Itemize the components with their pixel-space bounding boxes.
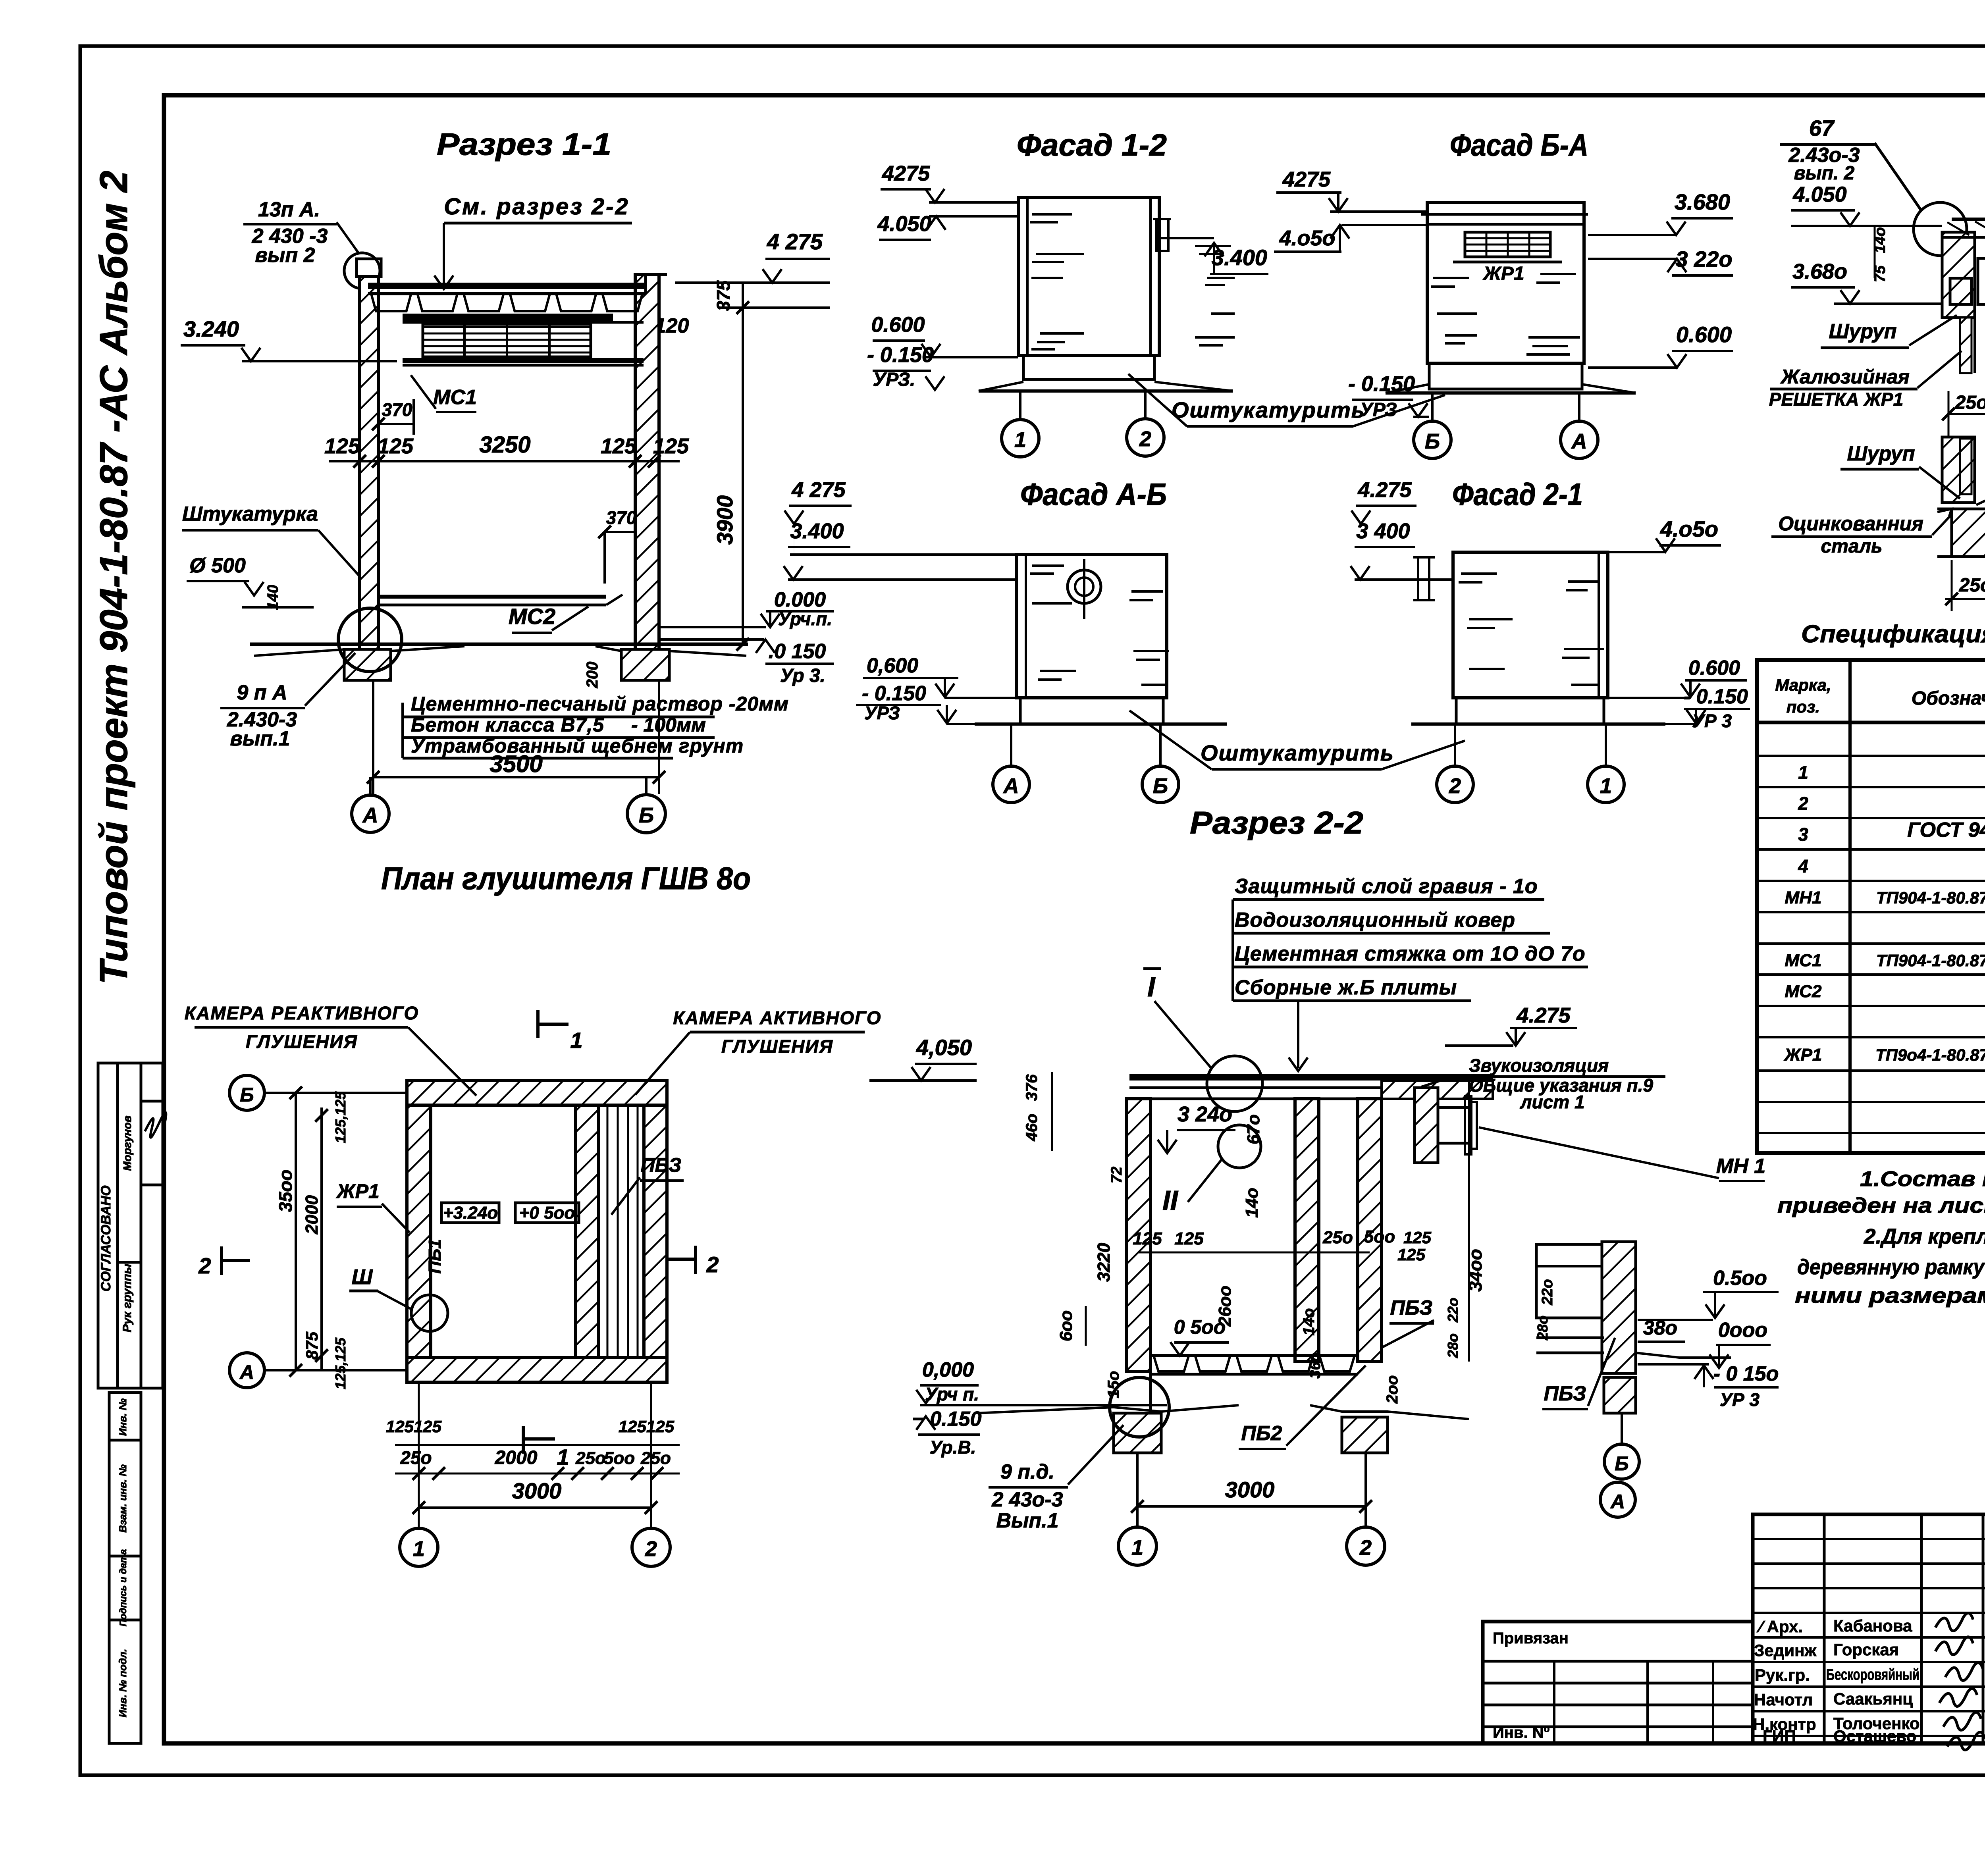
svg-text:4 275: 4 275 — [767, 229, 823, 254]
right dim 3400 — [1468, 1081, 1470, 1362]
svg-text:Б: Б — [1153, 774, 1168, 798]
spec table frame — [1757, 660, 1985, 1153]
svg-text:Водоизоляционный ковер: Водоизоляционный ковер — [1235, 909, 1515, 932]
svg-text:Б: Б — [639, 803, 654, 827]
svg-text:376: 376 — [1023, 1074, 1041, 1101]
signature table — [1753, 1514, 1985, 1743]
svg-text:Цементная стяжка от 1О дО 7о: Цементная стяжка от 1О дО 7о — [1235, 942, 1586, 965]
section 2-2 axis 1 — [1118, 1527, 1156, 1565]
facade B-A body — [1427, 202, 1584, 363]
embedded part MN1 flange — [1438, 1106, 1469, 1109]
svg-text:4 275: 4 275 — [791, 478, 846, 502]
svg-text:ТП9о4-1-80.87-АСН-ЖР1: ТП9о4-1-80.87-АСН-ЖР1 — [1875, 1046, 1985, 1064]
svg-text:2: 2 — [1449, 774, 1461, 798]
svg-text:3.240: 3.240 — [183, 316, 239, 341]
svg-text:Рук.гр.: Рук.гр. — [1755, 1666, 1810, 1684]
svg-text:0.5оо: 0.5оо — [1713, 1267, 1767, 1290]
svg-text:1: 1 — [1600, 774, 1612, 798]
plan detail circle III — [411, 1295, 448, 1331]
svg-text:Марка,: Марка, — [1775, 676, 1831, 694]
svg-text:9 п.д.: 9 п.д. — [1000, 1460, 1054, 1483]
svg-text:25о: 25о — [1959, 575, 1985, 596]
svg-text:Звукоизоляция: Звукоизоляция — [1469, 1055, 1609, 1076]
plan top wall — [407, 1081, 667, 1105]
svg-text:125125: 125125 — [619, 1417, 675, 1436]
svg-text:2: 2 — [645, 1537, 657, 1561]
svg-text:2.Для крепления жалюзийной: 2.Для крепления жалюзийной решетки выпол… — [1864, 1225, 1985, 1248]
svg-text:Инв. Nº: Инв. Nº — [1493, 1724, 1549, 1741]
facade 2-1 pedestal — [1456, 698, 1604, 724]
svg-text:2000: 2000 — [495, 1447, 538, 1468]
node axis A — [1600, 1482, 1635, 1517]
svg-text:25о: 25о — [575, 1448, 606, 1468]
svg-text:72: 72 — [1108, 1167, 1125, 1183]
svg-text:Оцинкованния: Оцинкованния — [1778, 512, 1923, 535]
svg-text:деревянную рамку из Бруска: деревянную рамку из Бруска сечением 1оох… — [1797, 1255, 1985, 1279]
svg-text:Оштукатурить: Оштукатурить — [1201, 740, 1394, 765]
svg-text:Осташево: Осташево — [1833, 1727, 1916, 1745]
svg-text:Вып.1: Вып.1 — [996, 1509, 1058, 1532]
plan axis B — [229, 1075, 264, 1110]
facade 1-2 pedestal — [1023, 356, 1154, 379]
facade B-A louvre ZhR1 — [1465, 232, 1550, 257]
svg-text:4275: 4275 — [882, 162, 930, 185]
svg-text:1: 1 — [570, 1028, 582, 1053]
svg-text:4,050: 4,050 — [916, 1035, 972, 1060]
svg-text:4.275: 4.275 — [1357, 478, 1412, 502]
svg-text:Бетон класса В7,5: Бетон класса В7,5 — [411, 714, 604, 736]
right wall hatched — [635, 275, 659, 656]
section 2-2 axis 2 — [1347, 1527, 1385, 1565]
svg-text:28о: 28о — [1445, 1333, 1461, 1358]
svg-text:3000: 3000 — [512, 1478, 562, 1503]
plan channel plates — [607, 1105, 609, 1358]
svg-text:А: А — [1003, 774, 1019, 798]
svg-text:.0 150: .0 150 — [769, 640, 826, 663]
svg-text:3.680: 3.680 — [1675, 189, 1730, 214]
svg-text:0,000: 0,000 — [922, 1358, 974, 1381]
plan right wall — [644, 1105, 667, 1358]
svg-text:9 п А: 9 п А — [237, 681, 287, 704]
svg-text:4.050: 4.050 — [877, 212, 931, 236]
svg-text:ГИП: ГИП — [1763, 1727, 1796, 1745]
svg-text:Защитный слой гравия - 1о: Защитный слой гравия - 1о — [1235, 875, 1538, 898]
svg-text:2000: 2000 — [302, 1195, 322, 1235]
svg-text:УР 3: УР 3 — [1720, 1389, 1760, 1410]
svg-text:14о: 14о — [1242, 1188, 1262, 1218]
svg-text:Фасад Б-А: Фасад Б-А — [1450, 127, 1588, 162]
svg-text:38о: 38о — [1643, 1317, 1677, 1339]
svg-text:26оо: 26оо — [1215, 1286, 1235, 1327]
facade A-B texture strokes — [1032, 564, 1064, 567]
foundation callout circle 2-2 — [1110, 1377, 1169, 1437]
svg-text:3000: 3000 — [1225, 1477, 1275, 1502]
roof parapet right — [644, 275, 647, 294]
svg-text:6оо: 6оо — [1056, 1310, 1076, 1341]
svg-text:1: 1 — [1014, 428, 1026, 452]
svg-text:Взам. инв. №: Взам. инв. № — [117, 1464, 129, 1533]
node axis B — [1604, 1444, 1639, 1479]
svg-text:РЕШЕТКА ЖР1: РЕШЕТКА ЖР1 — [1769, 389, 1903, 410]
svg-text:Типовой проект 904-1-80.87 -: Типовой проект 904-1-80.87 -АС Альбом 2 — [92, 171, 135, 984]
svg-text:Обозначение: Обозначение — [1912, 688, 1985, 709]
svg-text:- 0.150: - 0.150 — [862, 682, 926, 705]
node detail upper chamber — [1536, 1244, 1602, 1318]
svg-text:Фасад 1-2: Фасад 1-2 — [1017, 127, 1167, 162]
svg-text:Разрез 1-1: Разрез 1-1 — [437, 127, 611, 162]
svg-text:Ш: Ш — [352, 1265, 373, 1289]
svg-text:Инв. №: Инв. № — [117, 1398, 129, 1436]
facade B-A cornice — [1421, 213, 1588, 216]
svg-text:КАМЕРА АКТИВНОГО: КАМЕРА АКТИВНОГО — [673, 1007, 881, 1028]
svg-text:125: 125 — [1174, 1229, 1204, 1248]
plan axis A — [229, 1353, 264, 1388]
svg-text:2 43о-3: 2 43о-3 — [991, 1488, 1063, 1511]
svg-text:I: I — [1147, 971, 1156, 1002]
svg-text:125: 125 — [601, 434, 637, 458]
svg-text:14о: 14о — [1300, 1308, 1318, 1336]
svg-text:3250: 3250 — [479, 432, 530, 458]
svg-text:0.600: 0.600 — [871, 313, 925, 337]
foundation detail circle — [338, 608, 402, 672]
svg-text:2: 2 — [1139, 427, 1151, 451]
svg-text:Утрамбованный щебнем грунт: Утрамбованный щебнем грунт — [411, 735, 744, 757]
3900 vertical dim — [742, 283, 744, 644]
svg-text:Инв. № подл.: Инв. № подл. — [117, 1649, 129, 1718]
facade 1-2 texture strokes — [1032, 213, 1072, 216]
svg-text:Б: Б — [1615, 1452, 1628, 1475]
facade B-A texture strokes — [1433, 277, 1469, 279]
plan axis 1 — [400, 1528, 438, 1566]
svg-text:ПБЗ: ПБЗ — [1544, 1382, 1586, 1405]
svg-text:1: 1 — [413, 1537, 425, 1561]
ground line — [250, 643, 748, 646]
left wall hatched — [360, 277, 378, 649]
svg-text:- 100мм: - 100мм — [631, 714, 706, 736]
svg-text:МС2: МС2 — [509, 604, 555, 629]
facade 1-2 ground — [979, 389, 1233, 393]
svg-text:- 0.150: - 0.150 — [867, 343, 934, 367]
svg-text:200: 200 — [584, 662, 601, 689]
plan inner partition wall — [576, 1105, 599, 1358]
section 2-2 right foundation — [1342, 1417, 1388, 1453]
detail II bottom wall — [1952, 509, 1985, 557]
svg-text:3.68о: 3.68о — [1792, 260, 1847, 283]
detail I roof slab — [1952, 218, 1985, 221]
svg-text:3.400: 3.400 — [1212, 245, 1267, 270]
svg-text:Фасад 2-1: Фасад 2-1 — [1452, 477, 1583, 512]
svg-text:ПБ1: ПБ1 — [425, 1239, 445, 1273]
section 2-2 mid wall — [1295, 1099, 1319, 1362]
svg-text:МС1: МС1 — [433, 386, 477, 409]
svg-text:25о: 25о — [640, 1448, 671, 1468]
svg-text:125: 125 — [1397, 1245, 1426, 1264]
svg-text:5оо: 5оо — [604, 1448, 635, 1468]
facade A-B pedestal — [1020, 698, 1163, 724]
section 2-2 left foundation — [1114, 1413, 1161, 1453]
svg-text:ЖР1: ЖР1 — [335, 1180, 380, 1202]
leader to corner circle — [337, 222, 359, 254]
svg-text:2: 2 — [1359, 1536, 1372, 1560]
svg-text:4.о5о: 4.о5о — [1660, 516, 1718, 541]
svg-text:370: 370 — [382, 399, 412, 420]
svg-text:3.400: 3.400 — [790, 519, 844, 543]
svg-text:сталь: сталь — [1821, 536, 1882, 557]
svg-text:1.Состав кровли, указанный в: 1.Состав кровли, указанный в выносной на… — [1860, 1167, 1985, 1191]
svg-text:Привязан: Привязан — [1493, 1629, 1569, 1647]
facade B-A ground — [1386, 391, 1636, 395]
svg-text:УРЗ: УРЗ — [864, 703, 900, 723]
svg-text:лист 1: лист 1 — [1520, 1092, 1585, 1112]
svg-text:II: II — [1162, 1185, 1178, 1216]
spec table columns — [1848, 660, 1852, 1153]
section 2-2 left wall — [1127, 1099, 1151, 1371]
svg-text:вып.1: вып.1 — [230, 727, 290, 750]
svg-text:- 0 15о: - 0 15о — [1713, 1362, 1779, 1385]
svg-text:1: 1 — [557, 1445, 569, 1470]
svg-text:3: 3 — [1798, 824, 1808, 845]
svg-text:25о: 25о — [400, 1447, 432, 1468]
slab band under roof — [403, 314, 613, 321]
svg-text:Саакьянц: Саакьянц — [1833, 1689, 1913, 1708]
svg-text:2оо: 2оо — [1384, 1375, 1401, 1404]
svg-text:Горская: Горская — [1833, 1640, 1899, 1659]
plan elevation box +3.240 — [441, 1203, 499, 1223]
svg-text:∕ Арх.: ∕ Арх. — [1756, 1617, 1803, 1636]
svg-text:25о: 25о — [1955, 392, 1985, 413]
svg-text:ТП904-1-80.87-АСН-МС1: ТП904-1-80.87-АСН-МС1 — [1876, 951, 1985, 970]
svg-text:А: А — [239, 1361, 254, 1383]
svg-text:вып 2: вып 2 — [255, 244, 315, 267]
svg-text:поз.: поз. — [1786, 697, 1820, 716]
facade 2-1 axis 2 — [1437, 766, 1473, 803]
svg-text:28о: 28о — [1534, 1316, 1551, 1341]
facade 2-1 axis 1 — [1588, 766, 1624, 803]
svg-text:4.050: 4.050 — [1792, 183, 1846, 206]
svg-text:Сборные ж.Б плиты: Сборные ж.Б плиты — [1235, 976, 1457, 999]
inventory margin strip — [109, 1393, 141, 1743]
section 2-2 roof slab — [1129, 1074, 1493, 1081]
louvre grille ZhR1 in section — [423, 324, 591, 357]
plan section mark 1 top — [536, 1010, 540, 1038]
svg-text:Разрез 2-2: Разрез 2-2 — [1190, 805, 1363, 840]
svg-text:3 400: 3 400 — [1356, 519, 1410, 543]
facade A-B body — [1017, 555, 1167, 698]
svg-text:Фасад А-Б: Фасад А-Б — [1020, 477, 1167, 512]
svg-text:125,125: 125,125 — [332, 1337, 349, 1389]
svg-text:Ур 3.: Ур 3. — [780, 665, 825, 686]
svg-text:3900: 3900 — [712, 495, 737, 545]
svg-text:13п А.: 13п А. — [258, 198, 320, 221]
corner detail circle — [344, 253, 380, 289]
svg-text:Кабанова: Кабанова — [1833, 1616, 1912, 1635]
axis circle A — [352, 795, 389, 832]
svg-text:2: 2 — [198, 1253, 211, 1278]
roof slab ribbed plates — [368, 283, 646, 289]
svg-text:вып. 2: вып. 2 — [1794, 163, 1855, 184]
svg-text:0.000: 0.000 — [774, 588, 826, 611]
svg-text:См. разрез 2-2: См. разрез 2-2 — [444, 194, 630, 220]
svg-text:125: 125 — [1403, 1228, 1432, 1247]
svg-text:46о: 46о — [1023, 1114, 1041, 1142]
plan elevation box +0500 — [515, 1203, 579, 1223]
detail I-II wall upper — [1942, 232, 1975, 318]
svg-text:Шуруп: Шуруп — [1829, 320, 1897, 343]
facade 2-1 texture strokes — [1461, 572, 1497, 575]
svg-text:+0 5оо: +0 5оо — [519, 1203, 575, 1223]
detail II wall segment — [1942, 437, 1975, 503]
facade B-A pedestal — [1429, 363, 1582, 389]
svg-text:125: 125 — [324, 434, 360, 458]
svg-text:2: 2 — [1798, 793, 1808, 814]
facade 1-2 body — [1018, 197, 1159, 356]
svg-text:0ооо: 0ооо — [1718, 1319, 1767, 1342]
svg-text:2: 2 — [706, 1252, 719, 1277]
svg-text:Рук группы: Рук группы — [121, 1264, 134, 1332]
svg-text:КАМЕРА РЕАКТИВНОГО: КАМЕРА РЕАКТИВНОГО — [185, 1003, 419, 1023]
svg-text:А: А — [1610, 1491, 1625, 1513]
svg-text:34оо: 34оо — [1465, 1249, 1486, 1291]
svg-text:1: 1 — [1131, 1536, 1143, 1560]
plan left dims — [295, 1093, 297, 1370]
svg-text:125: 125 — [653, 434, 689, 458]
svg-text:3 24о: 3 24о — [1178, 1102, 1232, 1126]
svg-text:25о: 25о — [1322, 1228, 1353, 1247]
grille strip upper — [1960, 318, 1972, 373]
axis circle B — [627, 795, 665, 833]
facade B-A axis A — [1561, 421, 1598, 458]
svg-text:ГЛУШЕНИЯ: ГЛУШЕНИЯ — [721, 1036, 833, 1057]
svg-text:ГОСТ 948-84: ГОСТ 948-84 — [1907, 819, 1985, 842]
section I callout on 2-2 — [1207, 1056, 1262, 1111]
facade A-B ground — [975, 722, 1227, 726]
privyazan table — [1483, 1622, 1753, 1743]
svg-text:Цементно-песчаный раствор -20м: Цементно-песчаный раствор -20мм — [411, 693, 789, 715]
facade 1-2 axis 1 — [1002, 420, 1039, 457]
svg-text:Шуруп: Шуруп — [1847, 442, 1915, 465]
section II callout on 2-2 — [1218, 1125, 1261, 1168]
facade A-B axis B — [1142, 766, 1179, 803]
svg-text:125125: 125125 — [386, 1417, 442, 1436]
svg-text:22о: 22о — [1539, 1279, 1556, 1305]
plan bottom wall — [407, 1358, 667, 1382]
svg-text:План глушителя ГШВ 8о: План глушителя ГШВ 8о — [381, 861, 751, 896]
svg-text:3220: 3220 — [1094, 1243, 1114, 1282]
svg-text:УРЗ: УРЗ — [1360, 399, 1397, 420]
svg-text:- 0.150: - 0.150 — [1684, 685, 1748, 708]
svg-text:Начотл: Начотл — [1754, 1690, 1813, 1709]
lintel PB1 blocks — [1978, 258, 1985, 304]
node detail slab lines — [1536, 1337, 1604, 1339]
svg-text:Урч.п.: Урч.п. — [778, 609, 832, 629]
svg-text:36о: 36о — [1307, 1352, 1324, 1378]
svg-text:УРЗ.: УРЗ. — [873, 369, 915, 390]
svg-text:67о: 67о — [1244, 1114, 1263, 1144]
plan left wall — [407, 1105, 431, 1358]
svg-text:Спецификация изделий к глуш: Спецификация изделий к глушителю ГШВ 8о — [1801, 620, 1985, 648]
svg-text:ЖР1: ЖР1 — [1784, 1045, 1822, 1065]
svg-text:МН 1: МН 1 — [1716, 1155, 1765, 1178]
svg-text:1: 1 — [1798, 762, 1808, 783]
svg-text:Жалюзийная: Жалюзийная — [1780, 366, 1910, 388]
svg-text:ПБ2: ПБ2 — [1241, 1422, 1282, 1445]
node detail lower pier — [1604, 1377, 1636, 1413]
svg-text:125,125: 125,125 — [332, 1091, 349, 1143]
svg-text:67: 67 — [1809, 116, 1835, 141]
svg-text:ЖР1: ЖР1 — [1482, 263, 1524, 284]
svg-text:35оо: 35оо — [275, 1169, 296, 1212]
svg-text:375: 375 — [713, 280, 734, 311]
left foundation — [344, 649, 391, 680]
svg-text:Бескоровяйный: Бескоровяйный — [1826, 1666, 1919, 1683]
svg-text:125: 125 — [378, 434, 414, 458]
slab under louvre — [403, 358, 644, 363]
svg-text:+3.24о: +3.24о — [443, 1203, 498, 1223]
svg-text:ними размерами 187о х 34о.: ними размерами 187о х 34о. — [1795, 1284, 1985, 1308]
svg-text:Зединж: Зединж — [1754, 1641, 1817, 1660]
svg-text:Подпись и дата: Подпись и дата — [118, 1549, 129, 1627]
svg-text:0.600: 0.600 — [1676, 322, 1732, 347]
svg-text:4.275: 4.275 — [1516, 1003, 1571, 1027]
svg-text:3500: 3500 — [490, 751, 542, 777]
node detail wall hatched — [1602, 1242, 1636, 1373]
grille strip lower — [1960, 439, 1972, 494]
svg-text:Б: Б — [1425, 430, 1440, 453]
facade A-B porthole — [1068, 570, 1101, 603]
svg-text:ГЛУШЕНИЯ: ГЛУШЕНИЯ — [246, 1031, 358, 1052]
right foundation — [621, 649, 669, 680]
svg-text:Б: Б — [240, 1084, 254, 1106]
signature scribbles — [1935, 1613, 1973, 1631]
svg-text:4: 4 — [1798, 856, 1808, 876]
left wall parapet cap — [357, 259, 381, 277]
detail callout circle — [1914, 202, 1967, 256]
svg-text:5оо: 5оо — [1364, 1227, 1395, 1246]
svg-text:МС1: МС1 — [1785, 951, 1822, 970]
svg-text:4.о5о: 4.о5о — [1279, 226, 1335, 250]
svg-text:ПБЗ: ПБЗ — [641, 1154, 682, 1176]
svg-text:Оштукатурить: Оштукатурить — [1172, 397, 1365, 422]
svg-text:Ø 500: Ø 500 — [189, 554, 246, 577]
section 2-2 ground slopes — [977, 1405, 1239, 1413]
svg-text:А: А — [1571, 430, 1587, 453]
facade 2-1 pipe — [1418, 557, 1429, 600]
facade B-A louvre shelf — [1453, 261, 1562, 264]
svg-text:370: 370 — [606, 507, 637, 528]
svg-text:4275: 4275 — [1282, 168, 1331, 191]
svg-text:Ур.В.: Ур.В. — [930, 1437, 976, 1458]
interior bottom slab — [378, 595, 606, 599]
svg-text:Штукатурка: Штукатурка — [182, 503, 318, 526]
facade 1-2 axis 2 — [1127, 419, 1164, 456]
section 2-2 right overhang wall — [1415, 1088, 1438, 1163]
plan axis 2 — [632, 1528, 670, 1566]
facade B-A axis B — [1414, 421, 1451, 458]
svg-text:0,600: 0,600 — [867, 654, 918, 677]
plan section mark 1 bottom — [522, 1426, 525, 1454]
svg-text:ПБЗ: ПБЗ — [1390, 1296, 1433, 1319]
svg-text:140: 140 — [265, 585, 281, 610]
roof note leader — [1231, 899, 1234, 1001]
svg-text:ТП904-1-80.87-АСН-МН1: ТП904-1-80.87-АСН-МН1 — [1876, 888, 1985, 907]
svg-text:Моргунов: Моргунов — [121, 1115, 133, 1171]
approval stamp table — [98, 1063, 163, 1388]
section 2-2 floor ribbed — [1151, 1354, 1358, 1357]
section 2-2 right wall — [1358, 1099, 1382, 1362]
svg-text:125: 125 — [1133, 1229, 1162, 1248]
facade 1-2 pipe stub — [1156, 219, 1168, 251]
svg-text:875: 875 — [303, 1331, 321, 1360]
